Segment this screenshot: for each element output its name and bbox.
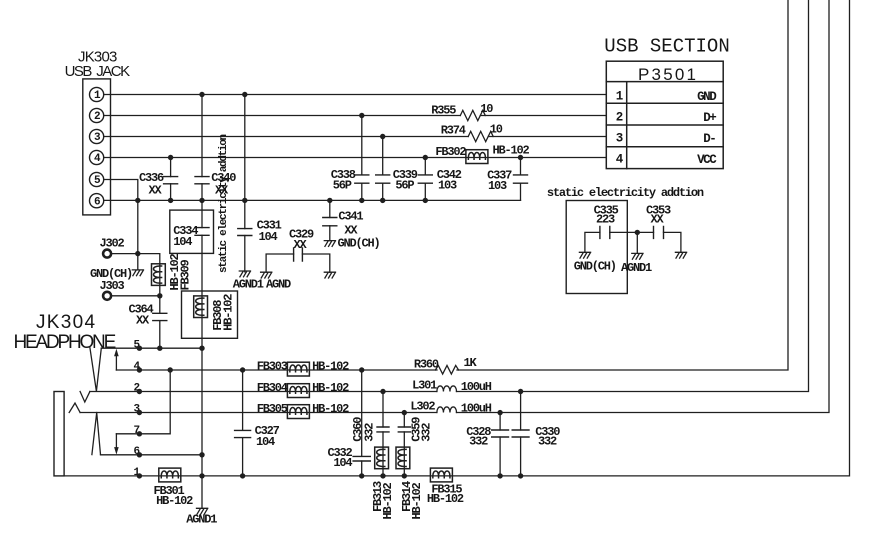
svg-text:XX: XX: [651, 212, 665, 226]
capacitor C336: [139, 158, 178, 201]
junction J303 node: [157, 293, 162, 298]
svg-text:100uH: 100uH: [461, 402, 492, 416]
svg-text:P3501: P3501: [638, 65, 698, 84]
capacitor C342: [418, 158, 461, 201]
junction C331 / GND row: [242, 92, 247, 97]
svg-text:USB SECTION: USB SECTION: [604, 36, 729, 58]
wire FB308 lead down to AGND1: [201, 348, 203, 508]
capacitor C339: [376, 137, 418, 201]
capacitor C334 (boxed): [170, 200, 214, 253]
svg-text:GND(CH): GND(CH): [338, 236, 380, 250]
svg-text:VCC: VCC: [697, 153, 717, 167]
connector J302: [100, 236, 125, 257]
resistor R355: [431, 102, 493, 120]
junction hp pin 7: [137, 431, 142, 436]
junction C340 / GND row: [199, 92, 204, 97]
svg-text:R355: R355: [431, 104, 456, 118]
junction C336 / ground bus: [168, 198, 173, 203]
svg-text:HB-102: HB-102: [222, 294, 236, 331]
svg-text:103: 103: [438, 179, 457, 193]
svg-text:FB305: FB305: [257, 402, 288, 416]
connector table P3501: [606, 61, 723, 168]
svg-text:HB-102: HB-102: [312, 402, 349, 416]
ground AGND1 under C331: [233, 271, 264, 292]
svg-text:2: 2: [94, 111, 100, 123]
ferrite bead FB302: [435, 144, 529, 164]
svg-text:1K: 1K: [464, 356, 478, 370]
wire hp pin1 row and wrap: [64, 0, 849, 476]
ground under C353: [675, 252, 686, 258]
svg-text:332: 332: [420, 423, 434, 442]
svg-text:J302: J302: [100, 236, 125, 250]
junction riser / pin1 row: [199, 473, 204, 478]
ground AGND under C329 left: [261, 272, 291, 291]
junction C332 / pin1 row: [359, 473, 364, 478]
ferrite bead FB309: [152, 253, 193, 295]
svg-text:R374: R374: [441, 123, 466, 137]
junction C327 / pin4 row: [240, 367, 245, 372]
wire hp pin6 row: [101, 454, 203, 456]
ground GND(CH) in static box: [574, 252, 616, 273]
headphone jack lower prong: [92, 413, 101, 455]
svg-text:D-: D-: [703, 132, 715, 146]
svg-text:223: 223: [596, 212, 615, 226]
svg-text:56P: 56P: [333, 179, 352, 193]
resistor R374: [441, 122, 503, 141]
junction C339 / D- row: [380, 134, 385, 139]
svg-text:XX: XX: [136, 314, 150, 328]
headphone jack JK304 body: [54, 392, 64, 476]
svg-text:10: 10: [480, 102, 493, 116]
svg-text:332: 332: [469, 435, 488, 449]
wire J302 to FB309: [112, 254, 160, 264]
svg-text:104: 104: [256, 435, 275, 449]
wire pin1 GND row: [104, 94, 607, 96]
svg-text:C341: C341: [338, 210, 363, 224]
svg-text:10: 10: [490, 122, 503, 136]
ferrite bead FB315: [427, 468, 464, 506]
svg-text:AGND1: AGND1: [621, 261, 652, 275]
svg-text:HB-102: HB-102: [381, 482, 395, 519]
svg-text:HEADPHONE: HEADPHONE: [14, 332, 116, 353]
svg-text:2: 2: [616, 111, 623, 125]
junction hp pin 5: [137, 346, 142, 351]
junction pin7 riser / pin4 row: [168, 367, 173, 372]
svg-text:1: 1: [616, 90, 623, 104]
svg-text:GND: GND: [697, 90, 717, 104]
junction hp pin 6: [137, 452, 142, 457]
capacitor C353: [637, 203, 681, 252]
resistor R360: [414, 356, 478, 374]
svg-text:104: 104: [173, 235, 192, 249]
capacitor C335: [585, 203, 637, 252]
junction C359 / pin3 row: [402, 410, 407, 415]
capacitor C330: [512, 392, 560, 476]
wire J303 to junction: [112, 295, 160, 297]
junction C341 / ground bus: [327, 198, 332, 203]
switch arrow down to pin6: [114, 434, 119, 455]
wire pin3 D- row: [104, 136, 607, 138]
svg-text:HB-102: HB-102: [312, 360, 349, 374]
wire hp pin7 to pin4 row: [116, 370, 170, 434]
wire pin4 VCC row: [104, 157, 607, 159]
junction FB314 / pin1 row: [402, 473, 407, 478]
svg-text:332: 332: [538, 434, 557, 448]
junction C338 / ground bus: [359, 198, 364, 203]
junction C337 / VCC row: [518, 155, 523, 160]
junction pin5 / ground bus: [135, 198, 140, 203]
junction hp pin 2: [137, 389, 142, 394]
ground GND(CH) at J302 junction: [90, 254, 144, 281]
svg-text:L301: L301: [412, 379, 437, 393]
wire pin5 to ground bus: [104, 180, 138, 201]
capacitor C337: [487, 158, 527, 201]
junction hp pin 4: [137, 367, 142, 372]
ground AGND1 at static box junction: [621, 232, 652, 274]
headphone jack upper prong: [90, 348, 101, 392]
svg-text:HB-102: HB-102: [493, 144, 530, 158]
ferrite bead FB304: [257, 381, 349, 398]
capacitor C329 with grounds: [266, 227, 330, 272]
ground AGND1 bottom: [186, 508, 217, 526]
junction C340 / ground bus: [199, 198, 204, 203]
wire hp pin5 row: [101, 347, 202, 349]
svg-text:static electricity addtion: static electricity addtion: [547, 186, 704, 200]
svg-text:XX: XX: [294, 238, 308, 252]
connector JK303 USB JACK: [83, 79, 111, 215]
capacitor C360: [351, 392, 389, 448]
inductor L301: [412, 379, 492, 394]
switch arrow up to pin5: [114, 349, 119, 370]
svg-text:6: 6: [94, 196, 100, 208]
svg-text:104: 104: [259, 230, 278, 244]
ground under C329 right: [324, 272, 335, 278]
capacitor C332: [328, 370, 371, 476]
capacitor C331: [238, 95, 282, 272]
svg-text:4: 4: [616, 153, 624, 167]
inductor L302: [410, 399, 491, 415]
junction C331 / ground bus: [242, 198, 247, 203]
connector J303: [100, 279, 125, 300]
svg-text:XX: XX: [344, 223, 358, 237]
svg-text:XX: XX: [149, 184, 163, 198]
ground GND(CH) under C341: [324, 236, 379, 250]
svg-text:104: 104: [333, 456, 352, 470]
capacitor C328: [466, 413, 508, 476]
svg-text:AGND1: AGND1: [186, 513, 217, 527]
junction C330 / pin2 row: [518, 389, 523, 394]
ferrite bead FB313: [371, 447, 395, 519]
wire hp pin3 row to L302 and wrap: [80, 0, 829, 413]
svg-text:D+: D+: [703, 111, 716, 125]
svg-text:FB302: FB302: [435, 145, 466, 159]
svg-text:JK304: JK304: [36, 312, 96, 333]
svg-text:AGND1: AGND1: [233, 278, 264, 292]
capacitor C364: [129, 296, 167, 348]
ferrite bead FB301: [154, 468, 194, 508]
box static electricity addtion: [566, 201, 627, 294]
capacitor C340: [195, 95, 236, 201]
wire ground bus row: [104, 199, 521, 201]
junction C339 / ground bus: [380, 198, 385, 203]
svg-text:AGND: AGND: [266, 278, 291, 292]
svg-text:R360: R360: [414, 357, 439, 371]
junction pin6 row riser: [199, 452, 204, 457]
headphone jack ring contact: [69, 403, 80, 412]
junction C335/C353 node: [635, 230, 640, 235]
junction C338 / D+ row: [359, 113, 364, 118]
junction C328 / pin3 row: [497, 410, 502, 415]
svg-text:100uH: 100uH: [461, 380, 492, 394]
svg-text:HB-102: HB-102: [427, 492, 464, 506]
svg-text:103: 103: [488, 179, 507, 193]
junction C328 / pin1 row: [497, 473, 502, 478]
junction C360 / pin2 row: [380, 389, 385, 394]
svg-text:3: 3: [616, 132, 623, 146]
junction FB313 / pin1 row: [380, 473, 385, 478]
wire hp pin4 row to R360 and wrap: [116, 0, 788, 370]
svg-text:J303: J303: [100, 279, 125, 293]
junction C330 / pin1 row: [518, 473, 523, 478]
svg-text:USB JACK: USB JACK: [65, 63, 131, 80]
junction hp pin 1: [137, 473, 142, 478]
junction C364 / pin5 row: [157, 346, 162, 351]
svg-text:GND(CH): GND(CH): [574, 260, 616, 274]
svg-text:L302: L302: [410, 399, 435, 413]
capacitor C327: [235, 370, 280, 476]
wire pin2 D+ row: [104, 115, 607, 117]
svg-text:HB-102: HB-102: [156, 494, 193, 508]
ferrite bead FB305: [257, 402, 349, 419]
ferrite bead FB308 (boxed): [182, 291, 238, 338]
svg-text:HB-102: HB-102: [312, 381, 349, 395]
wire J302 junction drop: [137, 200, 139, 253]
svg-text:FB303: FB303: [257, 360, 288, 374]
junction J302 node: [135, 251, 140, 256]
ferrite bead FB303: [257, 360, 349, 377]
ferrite bead FB314: [396, 447, 424, 519]
svg-text:56P: 56P: [395, 179, 414, 193]
svg-text:static electricity addtion: static electricity addtion: [218, 134, 230, 273]
svg-text:FB304: FB304: [257, 381, 288, 395]
junction C332 / pin4 row: [359, 367, 364, 372]
junction C327 / pin1 row: [240, 473, 245, 478]
capacitor C338: [331, 116, 369, 201]
headphone jack tip contact: [80, 392, 90, 403]
svg-text:HB-102: HB-102: [410, 482, 424, 519]
capacitor C359: [398, 413, 433, 448]
junction FB308 / pin5 row: [199, 346, 204, 351]
junction C336 / VCC row: [168, 155, 173, 160]
wire C334 to FB308: [201, 253, 203, 348]
junction hp pin 3: [137, 410, 142, 415]
junction C342 / VCC row: [423, 155, 428, 160]
capacitor C341: [323, 200, 364, 240]
svg-text:332: 332: [363, 423, 377, 442]
wire hp pin2 row to L301 and wrap: [90, 0, 809, 392]
junction C342 / ground bus: [423, 198, 428, 203]
svg-text:FB309: FB309: [178, 259, 192, 290]
